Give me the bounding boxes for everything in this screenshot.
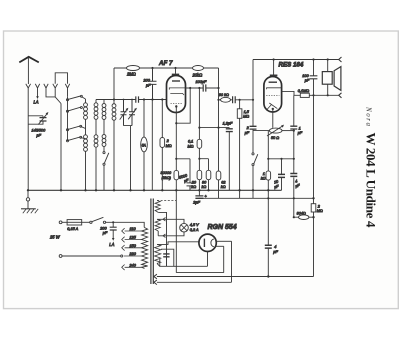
speaker driver	[322, 72, 332, 85]
switch S3	[252, 153, 254, 155]
node dot x293.8 y130.6	[293, 130, 295, 132]
capacitor 200pF	[149, 68, 157, 100]
wire bracket over forks	[55, 73, 67, 84]
label 10 uF	[273, 180, 281, 190]
trimmer capacitor C2	[121, 100, 127, 126]
svg-text:1: 1	[263, 172, 265, 176]
filter wire y198.3	[199, 197, 313, 199]
variable resistor 50 Ohm cathode	[269, 128, 282, 133]
AF7 internal anode line	[169, 88, 185, 90]
wire speaker feed vertical	[327, 60, 329, 96]
electrolytic 4uF reservoir	[265, 245, 272, 248]
svg-text:µF: µF	[245, 131, 250, 135]
svg-text:145/500: 145/500	[32, 129, 47, 133]
label 5000 pF	[179, 173, 190, 184]
AF7 internal top bar	[172, 80, 180, 82]
coil L3 tuning	[112, 104, 116, 108]
coil L1a	[84, 103, 88, 107]
arrow LA down	[37, 92, 39, 97]
svg-text:5A: 5A	[142, 143, 147, 147]
tap 150	[122, 245, 142, 251]
coupling capacitor 100pF plates	[203, 84, 206, 91]
svg-text:125: 125	[130, 236, 137, 240]
antenna socket fork 2	[35, 84, 39, 92]
wire var resistor right to x293.8	[282, 130, 294, 132]
resistor 1kOhm vertical	[267, 159, 269, 191]
svg-text:50 Ω: 50 Ω	[271, 136, 279, 140]
capacitor 200pF mains	[112, 222, 114, 227]
tube RES164 envelope	[264, 77, 282, 113]
wire band switch feeder x67.5	[67, 96, 69, 141]
switch S1d contact arm	[66, 140, 68, 142]
wire x199 anode-divider line	[198, 88, 200, 190]
svg-text:200: 200	[99, 227, 107, 231]
antenna symbol	[19, 57, 39, 63]
AF7 internal cathode dashes	[171, 102, 183, 104]
electrolytic 10uF	[281, 159, 283, 191]
wire antenna lead-in vertical	[27, 57, 29, 84]
svg-text:150: 150	[130, 244, 137, 248]
anode output wire y95.3	[294, 94, 339, 96]
svg-text:20: 20	[191, 180, 197, 184]
RES164 cathode pin dot	[272, 108, 274, 110]
node dot x199 y158.7	[198, 158, 200, 160]
svg-text:1,2µF: 1,2µF	[223, 121, 233, 125]
node dots y95.3	[312, 94, 328, 96]
wire var resistor left down	[253, 131, 269, 159]
switch S1a contact arm	[66, 99, 68, 101]
mains input terminal 2	[59, 255, 62, 258]
wire coil line x104	[103, 100, 105, 152]
wire arm tip to coil L1a	[81, 97, 85, 99]
svg-text:4,5 V: 4,5 V	[190, 223, 199, 227]
lamp coil 5A line	[143, 100, 145, 191]
node dots on top bus	[151, 67, 176, 69]
svg-text:240: 240	[129, 264, 137, 268]
svg-text:0,1: 0,1	[188, 140, 193, 144]
transformer primary winding zigzag	[142, 227, 148, 268]
resistor 20kOhm vertical	[197, 170, 202, 179]
grid capacitor C4 plates	[136, 96, 139, 102]
svg-text:LA: LA	[109, 242, 114, 247]
tap 125	[122, 237, 142, 243]
capacitor 5000pF	[187, 183, 194, 190]
svg-text:100µF: 100µF	[196, 80, 208, 84]
resistor 2MOhm inline	[127, 66, 140, 71]
AF7 anode wire y88	[186, 87, 219, 89]
wire switch to transformer	[106, 222, 145, 227]
coil L1b	[94, 103, 98, 107]
node dot 200pF branch	[112, 221, 114, 223]
wire heater lead 2	[158, 212, 166, 266]
secondary HT winding	[155, 244, 161, 263]
secondary heater winding 4V	[155, 201, 160, 213]
node dot x199 y127.6	[198, 127, 200, 129]
svg-text:RGN 554: RGN 554	[208, 224, 237, 231]
wire x218.5 main vertical	[218, 68, 220, 198]
wire HT bottom lead into box	[157, 263, 160, 266]
wire antenna down to ground bus	[27, 88, 29, 190]
switch S1b contact arm	[66, 110, 68, 112]
wire band switch feeder vertical	[60, 104, 62, 191]
tap 240	[122, 265, 142, 271]
wire switch S2 to bus	[103, 165, 105, 190]
label 4 uF	[294, 179, 301, 189]
wire pilot lamp bottom lead	[158, 231, 184, 236]
node dots on ground bus	[27, 189, 270, 191]
node dots on anode bus	[273, 58, 329, 60]
resistor 2MOhm vertical	[161, 100, 163, 191]
coil L2c	[102, 135, 106, 139]
coupling wire y99.8	[219, 99, 254, 101]
svg-text:RES 164: RES 164	[279, 61, 304, 68]
transformer core	[151, 199, 153, 285]
speaker cone	[334, 67, 341, 91]
electrolytic 4uF	[290, 174, 297, 177]
wire RGN second lead	[216, 245, 224, 247]
connector chevron heater tap 1	[154, 274, 157, 279]
wire HT top lead to rectifier anode	[157, 242, 199, 245]
svg-text:MΩ: MΩ	[188, 144, 194, 148]
tap 110	[122, 228, 142, 234]
svg-text:80 kΩ: 80 kΩ	[219, 93, 229, 97]
wire B+ return y276.5	[157, 276, 314, 278]
connector chevron heater tap 2	[154, 280, 157, 285]
svg-text:220: 220	[129, 252, 137, 256]
svg-text:LA: LA	[34, 100, 39, 105]
wire AF7 top cap lead	[175, 68, 177, 74]
svg-text:kΩ: kΩ	[202, 185, 207, 189]
svg-text:pF: pF	[304, 79, 310, 83]
capacitor 2uF electrolytic below bus	[198, 190, 200, 196]
resistor 80kOhm vertical	[206, 170, 211, 179]
svg-text:MΩ: MΩ	[166, 144, 172, 148]
svg-text:200: 200	[143, 79, 151, 83]
wire y127.6 to 1.2uF	[199, 127, 229, 129]
resistor 1.5MOhm grid leak	[239, 100, 241, 199]
resistor 62kOhm vertical	[216, 171, 221, 180]
node dot y276.5	[267, 275, 269, 277]
svg-text:1: 1	[299, 126, 301, 130]
wire 804 Ohm branch y217.2	[294, 216, 314, 218]
svg-text:kΩ: kΩ	[191, 185, 196, 189]
node dot x251.5 y99.8	[252, 99, 254, 101]
wire branch to 80k resistor	[199, 159, 208, 191]
arrow LA mains	[112, 230, 114, 239]
wire x152.3 H2 to bus	[151, 100, 153, 191]
coil L1c	[102, 104, 106, 108]
svg-text:0,15 A: 0,15 A	[67, 227, 78, 231]
RES164 anode wire	[282, 91, 294, 95]
wire x293.8 vertical	[293, 95, 295, 217]
ground symbol	[27, 190, 29, 197]
svg-text:100: 100	[302, 74, 309, 78]
resistor 30000 (3k) cathode	[174, 170, 179, 179]
wire 5000pF branch	[176, 159, 190, 183]
svg-text:25 W: 25 W	[49, 235, 61, 240]
wire fuse to switch	[82, 221, 90, 223]
top grid bus y68	[114, 67, 219, 69]
wire arm tips to coils L2	[81, 126, 86, 139]
wire tuning line x114 top bus corner to ground bus	[113, 68, 115, 190]
antenna socket fork 1	[26, 84, 31, 88]
coil L2a	[84, 135, 88, 139]
wire heater return x176.3 below bus	[175, 190, 177, 272]
resistor 804 Ohm inline	[299, 215, 309, 220]
wire inner loop y272.6	[176, 272, 223, 274]
svg-text:µF: µF	[273, 250, 278, 254]
svg-text:pF: pF	[36, 134, 42, 138]
resistor 0,1MOhm inline	[300, 93, 309, 97]
wire RES164 cathode down	[272, 109, 274, 128]
svg-text:110: 110	[130, 227, 137, 231]
svg-text:pF: pF	[102, 231, 108, 235]
node dots x218.5	[217, 87, 219, 129]
svg-text:µF: µF	[298, 131, 303, 135]
resistor 80 kOhm inline	[221, 97, 231, 102]
wire screen branch x190	[176, 88, 190, 123]
connector chevron lower right	[339, 93, 342, 98]
wire pilot lamp top lead	[157, 219, 184, 223]
node dots x313.5	[312, 197, 314, 218]
svg-text:pF: pF	[145, 83, 151, 87]
node dots on H2	[113, 98, 163, 100]
resistor 0.1MOhm vertical	[197, 139, 202, 148]
RES164 grid lead diagonal	[266, 105, 271, 111]
node dot grid junction	[239, 99, 241, 101]
RES164 internal anode line	[267, 88, 282, 90]
AF7 cathode pin dot	[175, 105, 177, 107]
wire mains 2 to tap 220	[62, 255, 121, 257]
wire heater lead dashed	[157, 200, 176, 202]
node dots on anode wire	[189, 87, 200, 89]
capacitor 2uF plates	[250, 126, 257, 129]
RES164 internal grid dashes	[266, 94, 279, 96]
wire B+ vertical x313.5	[313, 95, 315, 276]
node dot cathode junction	[175, 122, 177, 124]
svg-text:Nora: Nora	[365, 106, 373, 127]
RES164 internal top bar	[269, 81, 277, 83]
tap 220	[124, 255, 142, 257]
svg-text:(3kΩ): (3kΩ)	[162, 176, 172, 180]
wire x268.3 down to rectifier line	[267, 190, 269, 276]
switch S1c contact arm	[66, 129, 68, 131]
coil L2b	[94, 135, 98, 139]
svg-text:2µF: 2µF	[192, 201, 200, 205]
capacitor 1uF plates	[290, 126, 297, 129]
wire outer loop y282.3 to arrow	[157, 281, 232, 283]
svg-text:20kΩ: 20kΩ	[192, 72, 203, 77]
secondary pilot winding	[155, 219, 160, 231]
connector chevron top right	[339, 57, 342, 62]
resistor 20kOhm inline	[193, 66, 204, 71]
wire outer loop x231.5	[231, 241, 233, 282]
svg-text:1,5: 1,5	[244, 110, 250, 114]
grid line H2 with grid capacitor gap	[96, 99, 167, 101]
RGN internal filament bar	[203, 239, 205, 247]
wire x251.5 from top bus through switch	[252, 60, 254, 199]
trimmer capacitor 145/500 pF	[28, 116, 43, 118]
svg-text:AF 7: AF 7	[158, 60, 173, 67]
filter box with capacitor 50	[160, 249, 174, 266]
top anode bus y59.5	[253, 59, 339, 61]
wire to fuse	[62, 221, 67, 223]
wire coil L1a line to bus	[85, 99, 87, 190]
svg-text:804Ω: 804Ω	[297, 211, 306, 215]
wire RES164 top cap lead	[273, 60, 275, 75]
antenna socket fork 3	[44, 84, 55, 97]
svg-text:kΩ: kΩ	[261, 177, 266, 181]
wire trimmer return to bus	[124, 126, 133, 191]
antenna socket fork 4	[53, 84, 61, 104]
capacitor 1,2uF	[228, 128, 230, 191]
ground bus	[28, 189, 282, 191]
svg-text:0,2 A: 0,2 A	[190, 228, 199, 232]
svg-text:kΩ: kΩ	[221, 185, 226, 189]
tube RGN 554 envelope	[199, 234, 216, 251]
switch S2 in line	[103, 152, 105, 154]
svg-text:0,1MΩ: 0,1MΩ	[298, 89, 309, 93]
mains input terminal 1	[59, 221, 62, 224]
wire RGN bottom stub	[207, 251, 209, 266]
capacitor 100pF plates	[313, 60, 315, 96]
svg-text:4: 4	[274, 245, 276, 249]
wire box bottom extended to RGN	[174, 265, 208, 267]
svg-text:30000: 30000	[161, 171, 172, 175]
wire coil L1b line to bus	[95, 100, 97, 191]
svg-text:MΩ: MΩ	[317, 209, 323, 213]
mains switch	[90, 221, 92, 223]
pilot lamp 4,5V 0,2A	[180, 223, 189, 232]
wire RGN anode right to outer loop	[216, 240, 231, 242]
AF7 internal grid line	[170, 93, 184, 95]
lamp 5A ellipse	[141, 137, 148, 152]
trimmer capacitor C3	[129, 100, 135, 126]
RES164 internal cathode diagonal	[269, 103, 277, 109]
svg-text:2MΩ: 2MΩ	[126, 71, 136, 76]
resistor 2MOhm bleeder	[311, 204, 316, 212]
tube AF7 envelope	[167, 76, 186, 113]
RGN internal anode circle	[211, 239, 214, 247]
wire AF7 cathode through bottom	[175, 105, 177, 190]
capacitor coupling plates	[233, 96, 236, 103]
fuse 0,15A	[67, 220, 82, 225]
svg-text:W 204 L Undine 4: W 204 L Undine 4	[364, 133, 379, 229]
svg-text:MΩ: MΩ	[243, 115, 249, 119]
wire inner loop x223.7	[223, 246, 225, 272]
wire y158.8 cathode network	[268, 158, 294, 160]
antenna socket fork 5 with bracket link	[65, 84, 69, 97]
